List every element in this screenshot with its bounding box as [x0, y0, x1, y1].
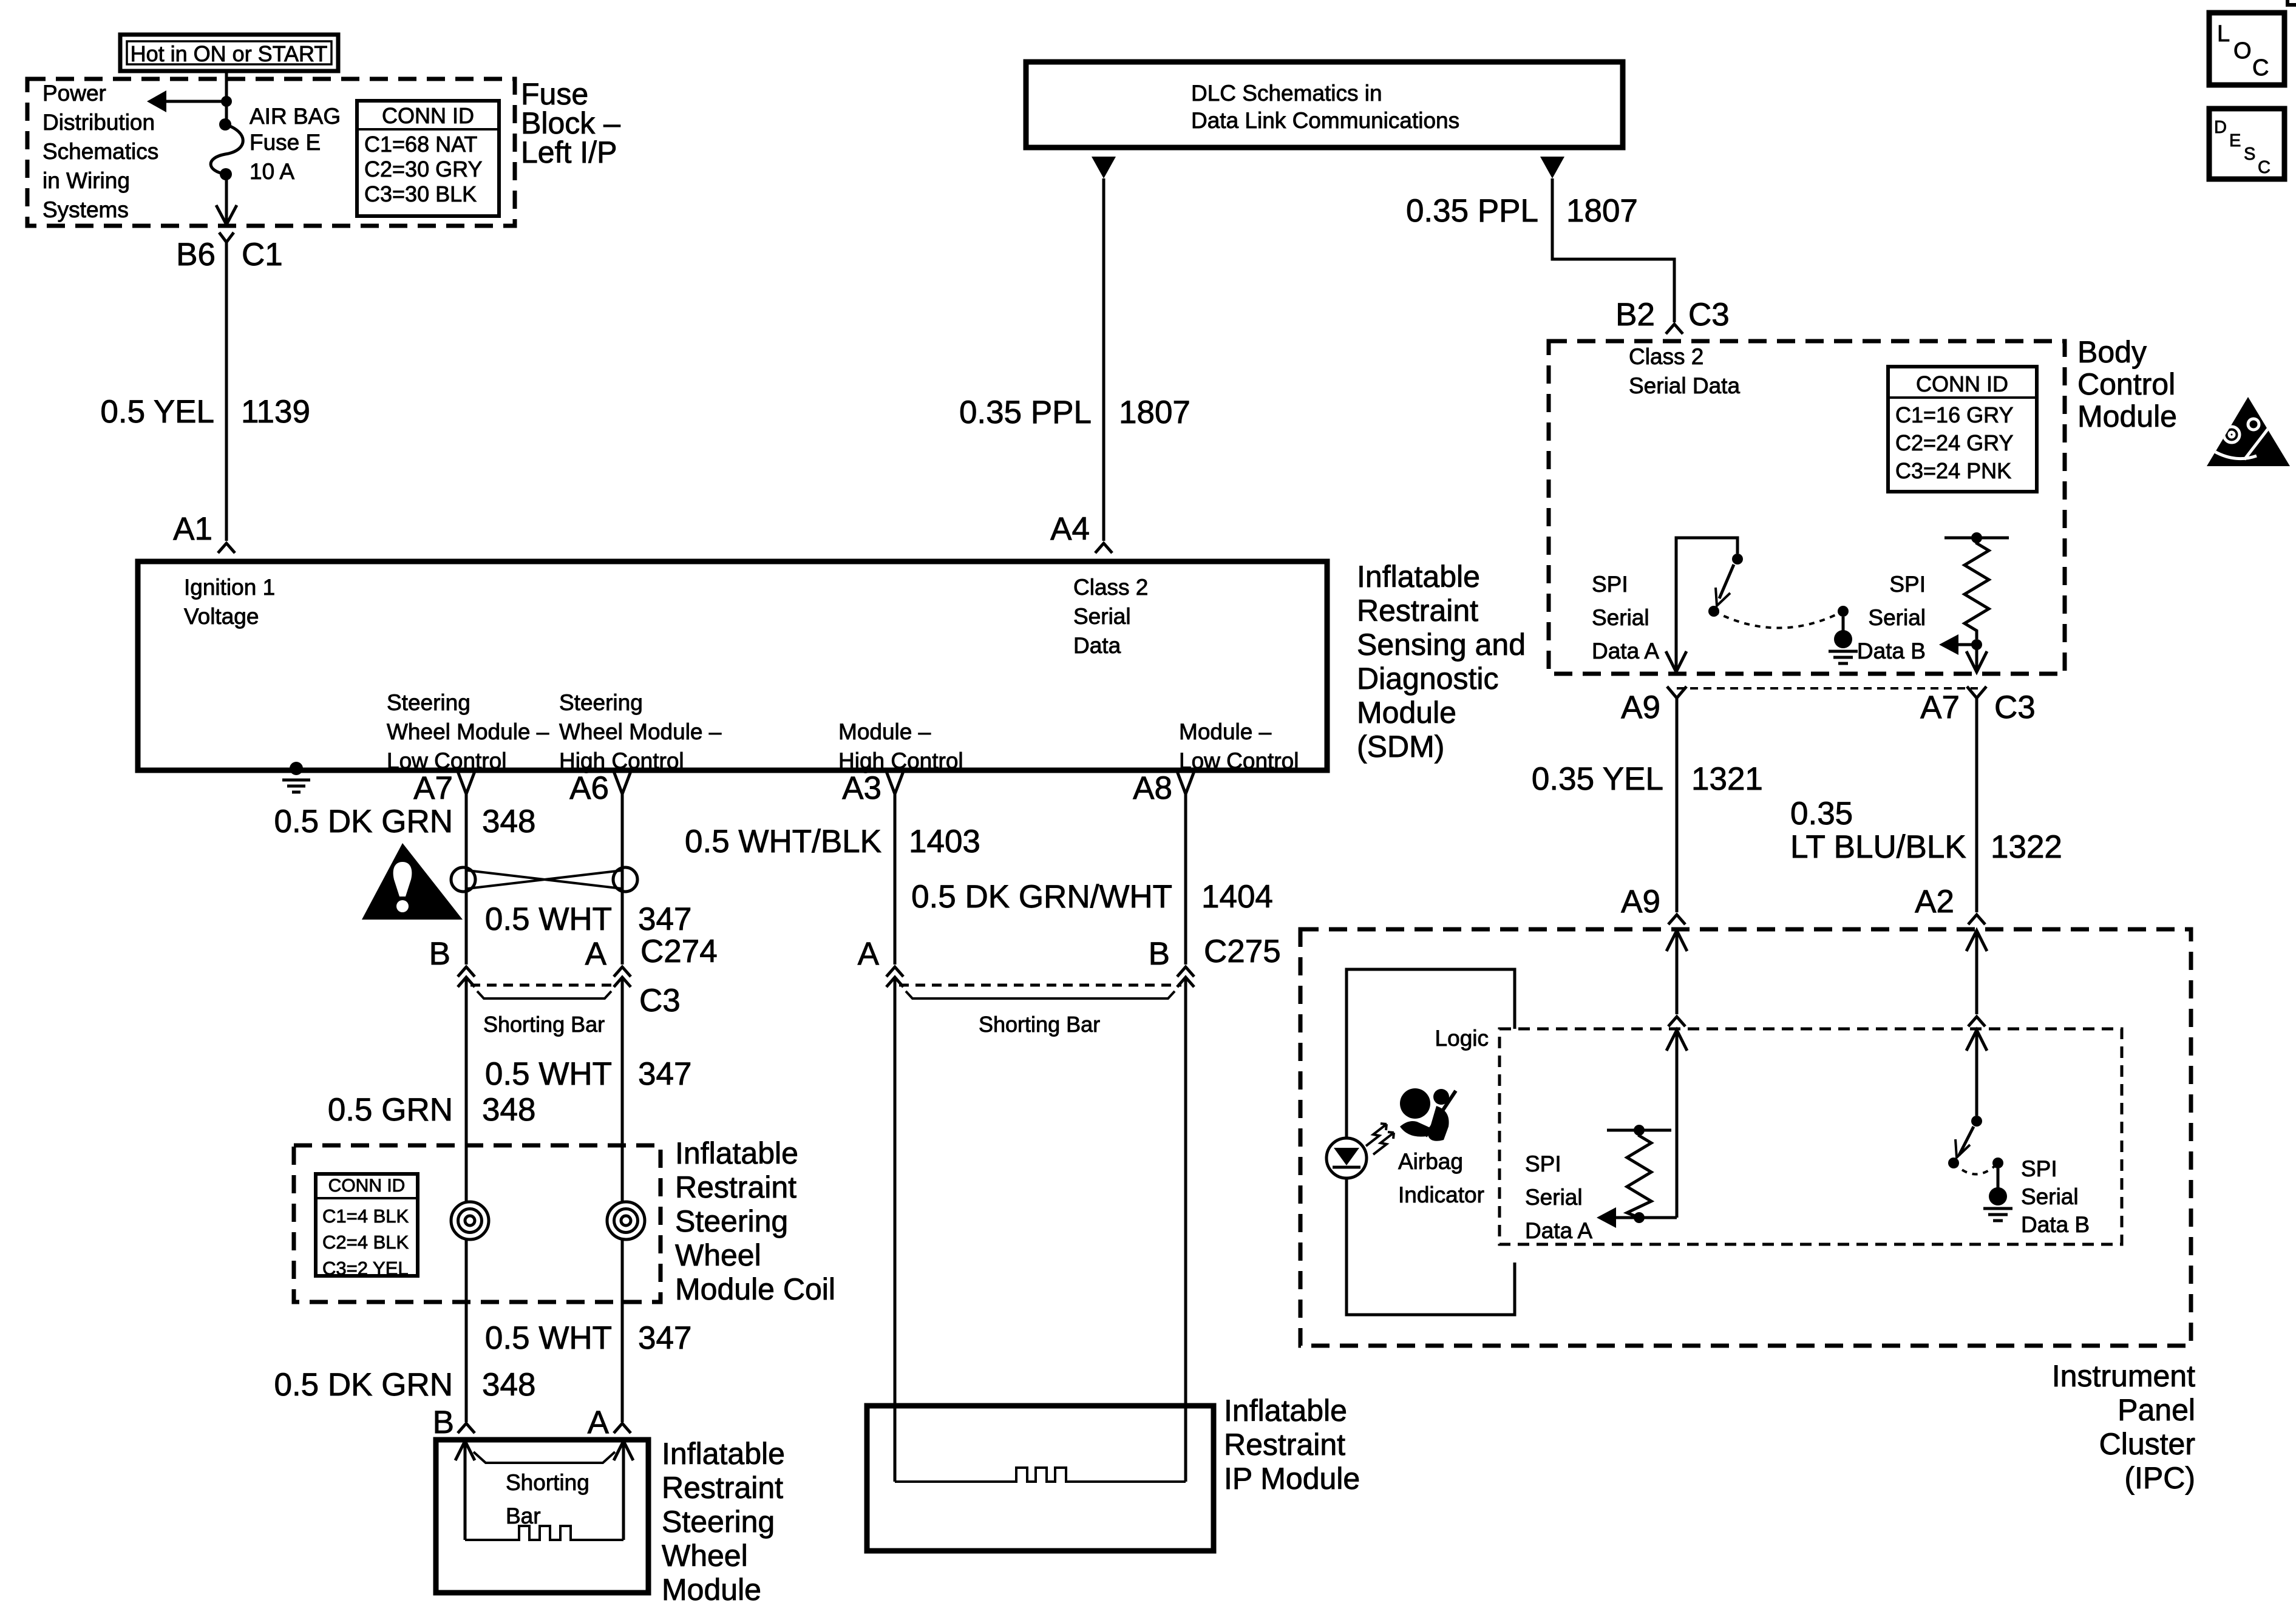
svg-text:1139: 1139 — [241, 394, 310, 430]
svg-text:C3: C3 — [1688, 297, 1730, 333]
svg-text:Hot in ON or START: Hot in ON or START — [131, 41, 328, 66]
svg-text:High Control: High Control — [559, 748, 684, 773]
svg-text:SPI: SPI — [1525, 1151, 1561, 1176]
svg-text:C274: C274 — [640, 934, 718, 969]
svg-text:A9: A9 — [1621, 884, 1660, 920]
svg-text:0.5 DK GRN: 0.5 DK GRN — [274, 1367, 453, 1403]
svg-text:A: A — [588, 1405, 610, 1440]
svg-text:0.5 DK GRN/WHT: 0.5 DK GRN/WHT — [911, 879, 1172, 915]
svg-text:Instrument: Instrument — [2052, 1359, 2195, 1393]
svg-text:1807: 1807 — [1566, 193, 1638, 229]
svg-text:A4: A4 — [1050, 511, 1090, 547]
svg-text:Restraint: Restraint — [662, 1471, 783, 1505]
svg-text:Module: Module — [1357, 696, 1456, 730]
svg-text:(SDM): (SDM) — [1357, 730, 1444, 764]
svg-text:A: A — [585, 936, 607, 972]
svg-text:Sensing and: Sensing and — [1357, 628, 1526, 662]
svg-text:Distribution: Distribution — [42, 110, 155, 135]
svg-text:0.35 PPL: 0.35 PPL — [959, 395, 1092, 430]
svg-text:A7: A7 — [1920, 690, 1960, 725]
svg-text:Class 2: Class 2 — [1073, 575, 1148, 600]
svg-text:1807: 1807 — [1119, 395, 1190, 430]
svg-text:D: D — [2214, 118, 2227, 137]
svg-text:Steering: Steering — [387, 690, 470, 715]
svg-text:10 A: 10 A — [250, 159, 294, 184]
svg-text:in Wiring: in Wiring — [42, 168, 130, 193]
svg-text:A8: A8 — [1133, 770, 1172, 806]
svg-text:Class 2: Class 2 — [1629, 344, 1703, 369]
svg-text:C3=2 YEL: C3=2 YEL — [322, 1258, 409, 1279]
svg-text:Module: Module — [2077, 399, 2177, 433]
svg-text:Ignition 1: Ignition 1 — [184, 575, 275, 600]
svg-text:C1: C1 — [242, 237, 283, 273]
svg-text:Power: Power — [42, 81, 106, 106]
svg-text:A1: A1 — [173, 511, 212, 547]
svg-text:Restraint: Restraint — [1224, 1428, 1345, 1462]
svg-text:Serial: Serial — [1592, 605, 1649, 630]
svg-text:DLC Schematics in: DLC Schematics in — [1191, 81, 1382, 106]
svg-text:348: 348 — [482, 1092, 535, 1128]
svg-text:SPI: SPI — [1889, 572, 1926, 597]
svg-text:0.5 WHT: 0.5 WHT — [485, 1320, 612, 1356]
svg-text:C: C — [2252, 55, 2269, 81]
svg-text:A7: A7 — [413, 770, 453, 806]
svg-text:Inflatable: Inflatable — [1357, 560, 1480, 594]
svg-text:Serial: Serial — [1073, 604, 1131, 629]
svg-text:LT BLU/BLK: LT BLU/BLK — [1790, 829, 1966, 865]
svg-text:C1=68 NAT: C1=68 NAT — [364, 132, 477, 157]
svg-text:Indicator: Indicator — [1398, 1182, 1484, 1207]
svg-text:SPI: SPI — [1592, 572, 1628, 597]
svg-text:1403: 1403 — [909, 824, 980, 859]
svg-text:IP Module: IP Module — [1224, 1462, 1360, 1496]
svg-text:CONN ID: CONN ID — [382, 103, 474, 128]
svg-text:C2=24 GRY: C2=24 GRY — [1895, 430, 2013, 455]
svg-text:C: C — [2258, 158, 2271, 177]
svg-text:Shorting Bar: Shorting Bar — [483, 1012, 605, 1037]
svg-text:1322: 1322 — [1991, 829, 2062, 865]
svg-text:0.5 WHT: 0.5 WHT — [485, 901, 612, 937]
svg-text:Wheel: Wheel — [675, 1238, 761, 1272]
svg-text:Cluster: Cluster — [2099, 1427, 2195, 1461]
svg-text:O: O — [2233, 38, 2252, 64]
svg-text:Low Control: Low Control — [387, 748, 506, 773]
svg-text:C2=30 GRY: C2=30 GRY — [364, 157, 482, 181]
svg-text:SPI: SPI — [2021, 1156, 2057, 1181]
svg-text:Wheel Module –: Wheel Module – — [559, 719, 722, 744]
svg-text:Module –: Module – — [1179, 719, 1272, 744]
svg-text:S: S — [2244, 144, 2255, 164]
svg-text:A9: A9 — [1621, 690, 1660, 725]
svg-text:L: L — [2217, 21, 2230, 47]
svg-text:0.5 GRN: 0.5 GRN — [328, 1092, 453, 1128]
svg-text:Data B: Data B — [1857, 639, 1926, 663]
svg-text:0.35 YEL: 0.35 YEL — [1532, 761, 1663, 797]
svg-text:Restraint: Restraint — [675, 1170, 796, 1204]
svg-text:0.5 WHT: 0.5 WHT — [485, 1056, 612, 1092]
svg-text:0.35 PPL: 0.35 PPL — [1406, 193, 1538, 229]
svg-text:Module –: Module – — [838, 719, 931, 744]
svg-text:A: A — [858, 936, 880, 972]
svg-text:Wheel Module –: Wheel Module – — [387, 719, 549, 744]
svg-text:AIR BAG: AIR BAG — [250, 104, 341, 129]
svg-text:347: 347 — [638, 1056, 691, 1092]
svg-text:CONN ID: CONN ID — [1916, 371, 2008, 396]
svg-text:Voltage: Voltage — [184, 604, 259, 629]
svg-text:Wheel: Wheel — [662, 1539, 748, 1573]
svg-text:A2: A2 — [1915, 884, 1954, 920]
svg-text:1321: 1321 — [1691, 761, 1763, 797]
svg-text:C2=4 BLK: C2=4 BLK — [322, 1232, 409, 1253]
svg-text:1404: 1404 — [1201, 879, 1273, 915]
svg-text:0.5 WHT/BLK: 0.5 WHT/BLK — [685, 824, 881, 859]
svg-text:C1=16 GRY: C1=16 GRY — [1895, 402, 2013, 427]
svg-text:B: B — [1149, 936, 1170, 972]
svg-text:Data A: Data A — [1592, 639, 1659, 663]
svg-text:Shorting Bar: Shorting Bar — [979, 1012, 1100, 1037]
svg-text:Data Link Communications: Data Link Communications — [1191, 108, 1459, 133]
svg-text:Left I/P: Left I/P — [521, 135, 617, 169]
svg-text:0.35: 0.35 — [1790, 796, 1853, 832]
svg-text:Bar: Bar — [506, 1503, 541, 1528]
svg-text:Steering: Steering — [559, 690, 643, 715]
svg-text:Control: Control — [2077, 367, 2175, 401]
svg-text:(IPC): (IPC) — [2124, 1461, 2195, 1495]
svg-text:Panel: Panel — [2118, 1393, 2195, 1427]
svg-text:Serial: Serial — [2021, 1184, 2079, 1209]
svg-text:Module Coil: Module Coil — [675, 1272, 835, 1306]
svg-text:Data: Data — [1073, 633, 1121, 658]
svg-text:Fuse E: Fuse E — [250, 130, 321, 155]
svg-text:Inflatable: Inflatable — [675, 1136, 798, 1170]
svg-text:C1=4 BLK: C1=4 BLK — [322, 1205, 409, 1227]
svg-text:Inflatable: Inflatable — [1224, 1394, 1347, 1428]
svg-text:B: B — [429, 936, 450, 972]
svg-text:Shorting: Shorting — [506, 1470, 589, 1495]
svg-text:C3: C3 — [639, 983, 681, 1019]
svg-text:Data B: Data B — [2021, 1212, 2090, 1237]
svg-text:Systems: Systems — [42, 197, 129, 222]
svg-text:Data A: Data A — [1525, 1218, 1592, 1243]
svg-text:A3: A3 — [842, 770, 881, 806]
svg-text:C3: C3 — [1994, 690, 2036, 725]
svg-text:C3=24 PNK: C3=24 PNK — [1895, 458, 2011, 483]
svg-text:Restraint: Restraint — [1357, 594, 1478, 628]
svg-text:Steering: Steering — [662, 1505, 775, 1539]
svg-text:A6: A6 — [569, 770, 609, 806]
svg-text:Logic: Logic — [1435, 1026, 1489, 1051]
svg-text:Body: Body — [2077, 335, 2147, 369]
svg-text:347: 347 — [638, 1320, 691, 1356]
svg-text:347: 347 — [638, 901, 691, 937]
svg-text:Low Control: Low Control — [1179, 748, 1299, 773]
svg-text:C275: C275 — [1204, 934, 1281, 969]
svg-text:Airbag: Airbag — [1398, 1149, 1463, 1174]
svg-text:C3=30 BLK: C3=30 BLK — [364, 181, 477, 206]
svg-text:CONN ID: CONN ID — [328, 1176, 406, 1196]
svg-text:B2: B2 — [1615, 297, 1655, 333]
svg-text:348: 348 — [482, 1367, 535, 1403]
svg-text:Inflatable: Inflatable — [662, 1437, 785, 1471]
svg-text:Steering: Steering — [675, 1204, 788, 1238]
svg-text:Module: Module — [662, 1573, 761, 1607]
svg-text:E: E — [2229, 131, 2241, 151]
svg-text:0.5 DK GRN: 0.5 DK GRN — [274, 804, 453, 839]
svg-text:Diagnostic: Diagnostic — [1357, 662, 1498, 696]
svg-text:Serial: Serial — [1525, 1185, 1583, 1210]
svg-text:348: 348 — [482, 804, 535, 839]
svg-text:B: B — [433, 1405, 454, 1440]
svg-text:Serial Data: Serial Data — [1629, 373, 1740, 398]
svg-text:Serial: Serial — [1868, 605, 1926, 630]
svg-text:Schematics: Schematics — [42, 139, 158, 164]
svg-text:0.5 YEL: 0.5 YEL — [100, 394, 214, 430]
svg-text:B6: B6 — [176, 237, 216, 273]
svg-text:High Control: High Control — [838, 748, 963, 773]
